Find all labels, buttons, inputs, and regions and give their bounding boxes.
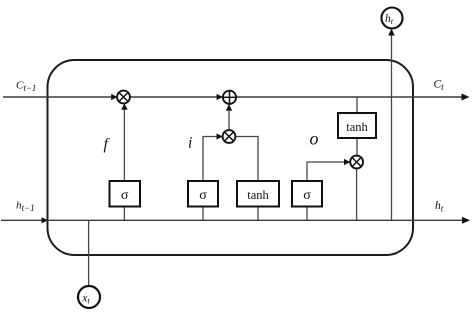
x_t input circle: [78, 286, 100, 308]
svg-text:i: i: [188, 135, 192, 152]
svg-text:o: o: [310, 129, 319, 149]
wire: cell-state line C (horizontal): [3, 96, 463, 98]
sigma box o gate: [292, 181, 322, 207]
wire: tanh1 input from h line: [257, 207, 259, 221]
sigma box f gate: [110, 181, 141, 207]
arrowhead f gate into multiply: [121, 103, 127, 110]
multiply node (input x candidate): [223, 130, 236, 143]
arrowhead i gate into multiply: [217, 133, 223, 139]
svg-text:ht: ht: [435, 200, 444, 214]
wire: C line branch down into tanh2: [356, 97, 358, 113]
svg-text:f: f: [104, 136, 111, 153]
svg-text:ht−1: ht−1: [16, 200, 35, 214]
wire: candidate tanh up and left to multiply: [236, 137, 259, 182]
arrowhead into h_t circle: [388, 29, 395, 36]
svg-text:Ct−1: Ct−1: [16, 80, 36, 94]
wire: h_t branch up to output circle: [391, 30, 393, 220]
arrowhead into add node from below: [226, 104, 232, 111]
tanh box candidate: [237, 181, 279, 207]
arrowhead into add node on C line: [217, 94, 223, 100]
cell body rounded rectangle: [48, 60, 414, 255]
wire: multiply3 output down to h line: [356, 168, 358, 221]
arrowhead at C_t output: [462, 94, 470, 101]
tanh box output squash: [338, 113, 376, 138]
wire: x_t input up to h line: [88, 220, 90, 286]
add node on C line: [223, 91, 236, 104]
wire: tanh2 down to multiply3: [356, 138, 358, 156]
wire: multiply2 output up to add node: [228, 105, 230, 131]
multiply node (output gate): [350, 156, 363, 169]
arrowhead where h enters cell: [42, 217, 49, 223]
svg-text:σ: σ: [303, 188, 311, 203]
wire: hidden-state line h (horizontal): [1, 219, 463, 221]
svg-text:σ: σ: [199, 188, 207, 203]
wire: i gate from sigma2 up and right to multiply: [203, 137, 222, 182]
h_t output circle: [382, 8, 403, 29]
multiply node (forget) on C line: [117, 91, 130, 104]
arrowhead into multiply node on C line: [111, 94, 117, 100]
wire: sigma1 input from h line: [123, 207, 125, 221]
svg-text:Ct: Ct: [434, 79, 445, 93]
arrowhead o gate into multiply3: [344, 159, 350, 165]
svg-text:σ: σ: [121, 188, 129, 203]
arrowhead at h_t output: [462, 217, 470, 224]
sigma box i gate: [188, 181, 218, 207]
wire: sigma3 input from h line: [306, 207, 308, 221]
svg-text:tanh: tanh: [247, 188, 269, 202]
wire: sigma2 input from h line: [202, 207, 204, 221]
svg-text:tanh: tanh: [346, 120, 368, 134]
wire: f gate up from sigma to multiply: [123, 104, 125, 181]
wire: o gate from sigma3 up and right to multiply3: [307, 162, 350, 181]
